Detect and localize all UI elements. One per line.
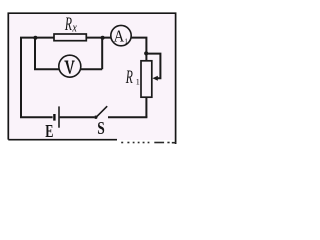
svg-text:1: 1 (136, 77, 140, 86)
svg-text:x: x (72, 21, 77, 34)
svg-text:E: E (45, 122, 53, 142)
svg-text:A: A (114, 28, 125, 46)
svg-text:R: R (125, 68, 133, 88)
svg-text:1: 1 (124, 38, 128, 46)
svg-text:R: R (64, 14, 72, 34)
svg-text:S: S (97, 119, 105, 138)
